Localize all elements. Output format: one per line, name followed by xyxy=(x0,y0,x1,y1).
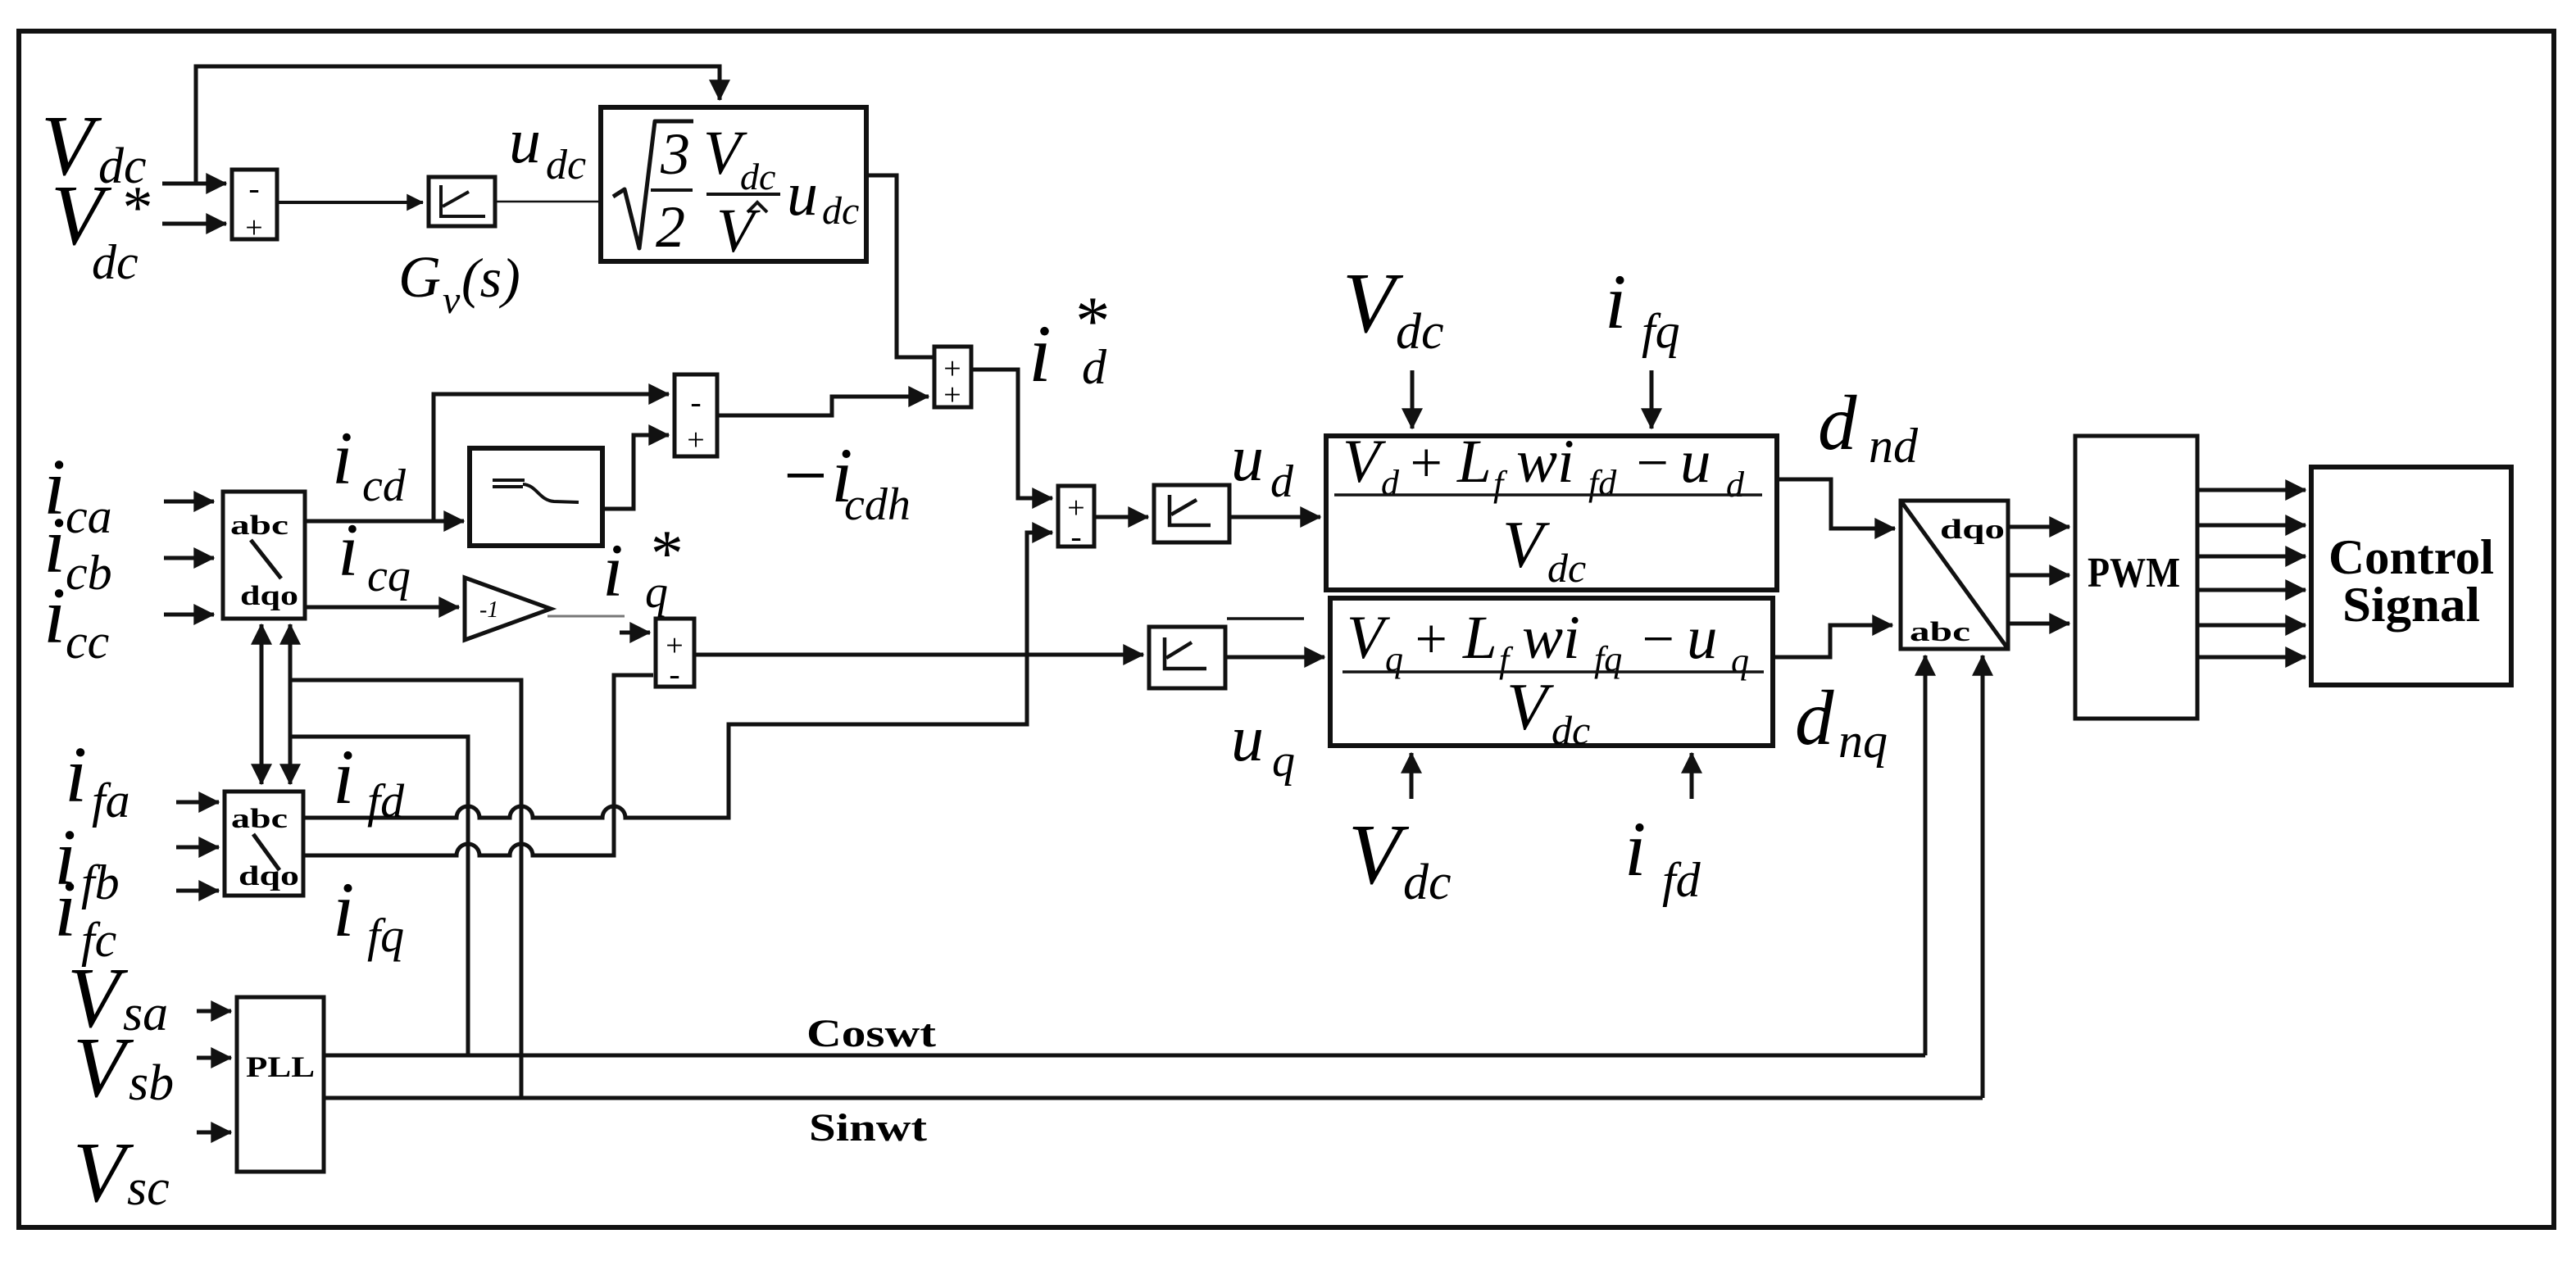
transform block T1 abc-dqo xyxy=(223,492,305,619)
svg-text:cd: cd xyxy=(362,460,407,511)
svg-text:+: + xyxy=(245,211,262,245)
wire ifc input xyxy=(176,889,219,893)
svg-text:nq: nq xyxy=(1838,714,1888,768)
wire ifb input xyxy=(176,846,219,850)
svg-text:+: + xyxy=(943,378,961,412)
svg-text:−: − xyxy=(1638,608,1677,671)
svg-text:dc: dc xyxy=(1403,855,1452,910)
gain block -1 xyxy=(465,578,551,640)
overbar above uq xyxy=(1227,617,1304,620)
svg-text:-: - xyxy=(690,383,701,420)
svg-text:dc: dc xyxy=(1396,304,1444,360)
PWM block xyxy=(2075,436,2197,719)
wire sum S4 to PI block P1 xyxy=(1094,515,1148,519)
svg-text:dc: dc xyxy=(740,156,775,197)
svg-text:fb: fb xyxy=(81,855,120,909)
svg-text:dqo: dqo xyxy=(240,581,298,611)
svg-text:+: + xyxy=(1406,432,1445,495)
Control Signal block xyxy=(2311,467,2511,685)
wire gain -1 output xyxy=(547,615,625,618)
wire ifd up arrow into F2 xyxy=(1690,753,1694,799)
svg-text:V: V xyxy=(1506,669,1554,744)
wire icq to gain -1 xyxy=(305,606,459,610)
svg-text:-: - xyxy=(669,655,679,692)
svg-text:fq: fq xyxy=(1642,304,1680,358)
wire PWM to Control Signal 4 xyxy=(2197,588,2306,592)
svg-text:−: − xyxy=(1633,432,1671,495)
svg-text:PWM: PWM xyxy=(2088,550,2180,596)
svg-text:V: V xyxy=(73,1019,134,1115)
wire cos-sin bus 2 between transforms xyxy=(288,624,293,784)
sum block S3 xyxy=(675,374,717,456)
wire uq from PI P2 to formula box F2 xyxy=(1225,655,1324,660)
wire F2 output dnq to dqo-abc block xyxy=(1773,625,1892,657)
svg-text:cc: cc xyxy=(66,615,109,669)
wire id* from sum S2 to sum S4 xyxy=(971,370,1052,498)
svg-text:cdh: cdh xyxy=(844,479,911,530)
svg-text:cb: cb xyxy=(66,546,112,600)
svg-text:abc: abc xyxy=(231,804,288,834)
svg-text:nd: nd xyxy=(1869,419,1919,473)
svg-text:fd: fd xyxy=(1588,463,1617,503)
PI block P2 xyxy=(1149,627,1225,688)
wire PWM to Control Signal 1 xyxy=(2197,488,2306,492)
svg-text:+: + xyxy=(687,423,704,457)
wire Vdc up arrow into F2 xyxy=(1410,753,1414,799)
wire ud from PI P1 to formula box F1 xyxy=(1229,515,1320,519)
sum block S1 xyxy=(232,170,277,239)
svg-text:dc: dc xyxy=(92,235,139,289)
svg-text:ca: ca xyxy=(66,489,112,543)
svg-text:−i: −i xyxy=(779,432,853,519)
wire low-pass filter to sum S3 plus xyxy=(602,435,669,509)
wire Vsb input to PLL xyxy=(197,1056,231,1060)
formula box F2 xyxy=(1330,598,1773,746)
wire sum S5 output to PI block P2 xyxy=(694,653,1143,657)
svg-text:2: 2 xyxy=(656,194,685,260)
svg-text:sb: sb xyxy=(129,1055,174,1111)
wire ifq down arrow into F1 xyxy=(1650,370,1654,429)
sqrt gain block xyxy=(601,107,866,261)
wire Vsa input to PLL xyxy=(197,1009,231,1014)
svg-text:i: i xyxy=(602,528,624,612)
PI block P1 xyxy=(1154,485,1229,542)
svg-text:u: u xyxy=(1687,604,1718,672)
wire Sinwt branch to transforms xyxy=(290,680,521,1098)
wire Vdc feedback to sqrt block xyxy=(196,66,720,182)
wire ica input xyxy=(164,500,214,504)
svg-text:i: i xyxy=(332,416,353,500)
svg-text:v: v xyxy=(443,279,461,322)
wire PWM to Control Signal 5 xyxy=(2197,624,2306,628)
sum block S4 xyxy=(1058,486,1094,547)
svg-text:q: q xyxy=(645,567,668,618)
svg-text:-: - xyxy=(1070,518,1081,555)
svg-text:dc: dc xyxy=(546,142,586,188)
svg-text:u: u xyxy=(787,160,818,229)
wire Vsc input to PLL xyxy=(197,1131,231,1135)
svg-text:dc: dc xyxy=(1547,545,1586,591)
wire dqo-abc to PWM 1 xyxy=(2008,525,2069,529)
svg-text:d: d xyxy=(1818,379,1857,466)
wire ifa input xyxy=(176,801,219,805)
wire PWM to Control Signal 6 xyxy=(2197,655,2306,660)
svg-text:V: V xyxy=(1348,806,1410,902)
low-pass filter block xyxy=(470,448,602,546)
svg-text:i: i xyxy=(43,572,66,660)
svg-text:sc: sc xyxy=(127,1160,170,1216)
svg-text:i: i xyxy=(1029,308,1052,399)
svg-text:G: G xyxy=(398,244,441,310)
svg-text:u: u xyxy=(1680,428,1711,496)
svg-text:V: V xyxy=(1502,507,1550,582)
svg-text:Coswt: Coswt xyxy=(806,1012,936,1055)
wire dqo-abc to PWM 2 xyxy=(2008,574,2069,578)
PI block Gv(s) xyxy=(429,177,495,226)
svg-text:u: u xyxy=(1231,703,1264,775)
wire -icdh from sum S3 to sum S2 xyxy=(717,397,929,415)
svg-text:dqo: dqo xyxy=(239,861,299,891)
svg-text:dqo: dqo xyxy=(1940,515,2005,545)
svg-text:fa: fa xyxy=(92,773,130,828)
svg-text:L: L xyxy=(1456,428,1492,496)
svg-text:i: i xyxy=(333,866,354,953)
wire icd to low-pass filter xyxy=(305,519,464,524)
sum block S5 xyxy=(656,619,694,687)
svg-text:dc: dc xyxy=(1552,707,1590,753)
svg-text:Sinwt: Sinwt xyxy=(809,1106,927,1150)
svg-text:L: L xyxy=(1462,604,1497,672)
wire F1 output dnd to dqo-abc block xyxy=(1777,479,1895,528)
svg-text:-1: -1 xyxy=(479,597,498,623)
sum block S2 xyxy=(934,347,971,407)
svg-text:*: * xyxy=(120,175,150,242)
svg-text:d: d xyxy=(1381,463,1400,503)
svg-text:V: V xyxy=(1343,255,1404,351)
wire icc input xyxy=(164,613,214,617)
wire iq* arrow into sum S5 xyxy=(620,631,650,635)
svg-text:dc: dc xyxy=(822,189,859,233)
svg-text:d: d xyxy=(1082,340,1107,394)
wire Coswt riser to dqo-abc xyxy=(1924,655,1928,1055)
svg-text:i: i xyxy=(333,733,354,820)
wire Coswt branch to transforms xyxy=(290,737,468,1055)
svg-text:i: i xyxy=(1624,805,1646,892)
formula box F1 xyxy=(1326,436,1777,590)
wire Sinwt line xyxy=(324,1096,1983,1100)
svg-text:cq: cq xyxy=(367,551,411,601)
svg-text:PLL: PLL xyxy=(246,1050,315,1083)
svg-text:u: u xyxy=(1231,423,1264,495)
wire Vdc input xyxy=(162,182,226,186)
wire Vdc* input xyxy=(162,222,226,226)
svg-text:i: i xyxy=(54,865,76,954)
wire Coswt line xyxy=(324,1054,1925,1058)
svg-text:-: - xyxy=(248,170,259,206)
wire icb input xyxy=(164,556,214,560)
svg-text:d: d xyxy=(1726,465,1745,505)
svg-text:q: q xyxy=(1272,736,1295,787)
wire cos-sin bus 1 between transforms xyxy=(260,624,264,784)
svg-text:Control: Control xyxy=(2328,530,2494,584)
wire ifd feedback to sum S4 minus xyxy=(303,533,1052,818)
svg-text:i: i xyxy=(65,731,87,819)
svg-text:abc: abc xyxy=(1910,617,1970,647)
svg-text:+: + xyxy=(1411,608,1450,671)
wire PWM to Control Signal 3 xyxy=(2197,555,2306,559)
svg-text:wi: wi xyxy=(1516,428,1574,496)
svg-text:3: 3 xyxy=(660,121,690,187)
wire Gv(s) to sqrt block xyxy=(495,201,601,203)
svg-text:Signal: Signal xyxy=(2342,578,2480,632)
svg-text:sa: sa xyxy=(123,986,168,1041)
wire Sinwt riser to dqo-abc xyxy=(1981,655,1985,1098)
svg-text:q: q xyxy=(1731,641,1749,681)
transform block T2 abc-dqo xyxy=(225,792,303,896)
svg-text:wi: wi xyxy=(1522,604,1580,672)
svg-text:fq: fq xyxy=(367,909,404,962)
svg-text:i: i xyxy=(1605,258,1626,345)
wire Vdc down arrow into F1 xyxy=(1411,370,1415,429)
wire icd branch to sum S3 minus xyxy=(434,394,669,521)
svg-text:V: V xyxy=(716,197,761,265)
wire PWM to Control Signal 2 xyxy=(2197,524,2306,528)
PLL block xyxy=(237,997,324,1172)
svg-text:d: d xyxy=(1795,674,1834,761)
wire dqo-abc to PWM 3 xyxy=(2008,622,2069,626)
svg-text:i: i xyxy=(338,508,359,592)
svg-text:fd: fd xyxy=(1662,853,1701,907)
svg-text:abc: abc xyxy=(230,510,288,541)
svg-text:d: d xyxy=(1270,456,1294,507)
svg-text:V: V xyxy=(73,1124,134,1220)
wire sum S1 to Gv(s) xyxy=(277,201,423,204)
svg-text:(s): (s) xyxy=(461,247,520,309)
wire ifq feedback to sum S5 minus xyxy=(303,675,653,855)
wire sqrt block output to sum S2 xyxy=(866,175,934,357)
dqo-abc transform block xyxy=(1901,501,2008,649)
svg-text:u: u xyxy=(509,105,541,176)
svg-text:fd: fd xyxy=(367,774,405,828)
